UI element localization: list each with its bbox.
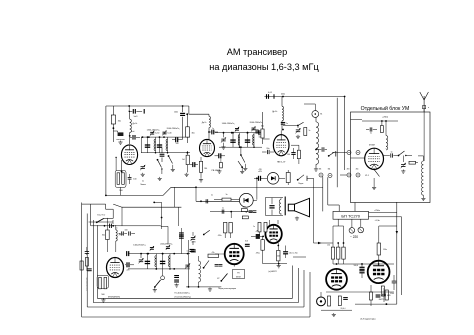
wire PSU box to R13 R14: [333, 219, 397, 243]
wire detector bus: [195, 186, 239, 202]
trimmer C42: [138, 254, 143, 264]
svg-text:30к: 30к: [118, 121, 121, 123]
svg-text:Др 8+: Др 8+: [272, 111, 278, 113]
tube V5 rectifier: [326, 269, 347, 290]
connector К4: [328, 174, 332, 178]
connector К1: [347, 151, 351, 155]
svg-text:20,0 х 25в: 20,0 х 25в: [289, 253, 297, 255]
trimmer C7a 6+30: [162, 131, 171, 136]
svg-text:1н: 1н: [391, 152, 393, 154]
svg-text:Отдельный блок УМ: Отдельный блок УМ: [361, 105, 410, 112]
label Х3 Х4: [347, 168, 359, 170]
wire bus A2: [153, 202, 162, 230]
choke Др2 Др 8+: [202, 116, 211, 139]
svg-text:АМ трансивер: АМ трансивер: [227, 47, 288, 57]
switch S12: [238, 161, 243, 170]
wire bus A: [105, 187, 196, 196]
connector К3: [319, 173, 323, 177]
output transformer Tr3: [265, 197, 285, 216]
label band1 VFO: [133, 244, 146, 246]
trimmer C20 PA: [401, 156, 406, 169]
svg-text:100: 100: [176, 143, 179, 145]
capacitor C26 20,0: [283, 246, 297, 259]
svg-text:1н: 1н: [286, 123, 288, 125]
wire cathode V1: [121, 160, 123, 173]
resistor R12 PA: [409, 161, 418, 164]
choke Др3: [272, 97, 283, 131]
svg-text:470к: 470к: [218, 235, 222, 237]
wire V3 grid: [263, 138, 270, 140]
ground gnd11: [401, 170, 405, 174]
label Отдельный блок УМ: [361, 105, 410, 112]
svg-text:Др 8+: Др 8+: [202, 122, 207, 124]
resistor R25: [80, 252, 83, 270]
capacitor C4 100 (cathode): [128, 174, 137, 184]
wire bus B: [82, 204, 182, 226]
label V2: [212, 170, 221, 172]
capacitor C23: [382, 288, 391, 302]
tube V3 ГУ: [273, 131, 289, 156]
label К3 К4: [319, 168, 331, 170]
PSU box БП ТС270: [333, 211, 369, 219]
label band1 Tr2: [222, 123, 236, 125]
label Пара регенерации: [218, 288, 237, 290]
resistor R31: [85, 258, 91, 272]
svg-text:+250в: +250в: [382, 117, 389, 119]
capacitor C44: [191, 250, 196, 252]
ground gnd2: [158, 177, 162, 181]
ground gnd10: [314, 168, 318, 172]
wire К-Х links: [332, 153, 347, 176]
svg-text:100: 100: [287, 154, 290, 156]
wire modulator links: [215, 254, 234, 267]
svg-text:1400-1900кГц: 1400-1900кГц: [133, 244, 146, 246]
neon lamp HL1: [304, 104, 322, 117]
capacitors C29 pair: [215, 265, 223, 267]
resistor R24 30к: [102, 218, 109, 252]
wire feeds into PSU top: [323, 177, 355, 212]
svg-text:6+30: 6+30: [168, 133, 172, 135]
svg-text:150к: 150к: [383, 249, 387, 251]
tank L11C31: [160, 253, 171, 270]
diode VD0 limiter: [267, 173, 285, 185]
wire modulator bottom bus: [186, 286, 221, 291]
mic coupling coil L9: [199, 256, 201, 287]
label БП ТС270: [341, 213, 360, 218]
wire limiter drop: [256, 177, 258, 199]
capacitor C13 0,01: [267, 92, 285, 99]
label bottom right: [360, 299, 384, 320]
ground gnd5: [171, 168, 175, 172]
resistors R29 R30 (V7 grid): [218, 212, 233, 238]
svg-text:1об: 1об: [131, 131, 134, 133]
svg-text:1к: 1к: [309, 130, 311, 132]
label band2 VFO: [160, 243, 173, 245]
wire bus 225: [91, 207, 161, 229]
wire bottom run 2: [0, 0, 1, 1]
resistor R32 1к: [304, 128, 311, 136]
switch S5 PA: [398, 151, 412, 156]
resistor R6 1к5: [182, 151, 189, 172]
wire bottom run 1: [355, 303, 397, 305]
tank L1C6: [145, 136, 157, 153]
capacitor C2 100п: [174, 106, 185, 140]
switch S1 (stage1): [157, 159, 163, 174]
svg-text:6Н2П: 6Н2П: [379, 299, 384, 301]
svg-text:560: 560: [101, 294, 104, 296]
resistor R17: [370, 285, 381, 306]
trimmer C45: [185, 263, 190, 268]
ground gnd1: [141, 173, 145, 177]
tank L10C30: [145, 253, 157, 270]
switch S14 КУ: [217, 274, 227, 282]
connector XS2 VFO: [161, 269, 165, 280]
resistor R7 240: [199, 157, 207, 178]
svg-text:2000-2940кГц: 2000-2940кГц: [160, 243, 173, 245]
switch S11 stage3: [283, 122, 304, 126]
svg-text:ПВ /1-Э/: ПВ /1-Э/: [277, 161, 286, 163]
switch S2 Tr1: [168, 155, 173, 168]
svg-text:1н: 1н: [211, 194, 213, 196]
svg-text:470: 470: [259, 169, 262, 171]
ground gnd7: [221, 146, 225, 150]
label 6,3в PSU: [374, 220, 380, 222]
ground gnd22: [240, 170, 244, 174]
ground gnd15: [277, 264, 281, 268]
wire V7 cathode bus: [263, 263, 287, 265]
trimmer C6a 6+30: [150, 131, 159, 136]
resistor R2 (grid, dark): [113, 131, 125, 144]
svg-text:2000-2940кГц: 2000-2940кГц: [250, 122, 264, 124]
resistor R19 470а: [256, 236, 265, 263]
wire bus C: [89, 220, 113, 224]
resistors R36 R37 pair: [253, 222, 267, 236]
tank coil L7: [316, 118, 319, 168]
label +250в PSU: [374, 210, 381, 212]
ground gnd12: [421, 197, 425, 201]
resistor R33: [286, 170, 290, 185]
svg-text:1н: 1н: [187, 251, 189, 253]
wire bottom long: [0, 0, 1, 1]
wire stage2 supply link: [183, 106, 209, 116]
resistor R1 30к: [111, 106, 121, 142]
wire V7 to psu: [293, 256, 306, 258]
choke Др5: [116, 225, 124, 252]
switch S3 Tr2: [240, 147, 245, 167]
svg-text:400в: 400в: [281, 94, 285, 96]
resistor R13: [331, 243, 334, 264]
ground gnd14: [332, 313, 336, 317]
fuse-plug circle 1: [349, 219, 355, 233]
wire +supply bus stage3: [264, 96, 345, 98]
capacitor C34: [125, 230, 136, 236]
wire PA supply: [362, 120, 398, 122]
svg-text:2000-2940кГц: 2000-2940кГц: [167, 128, 181, 130]
svg-text:100п: 100п: [174, 112, 178, 114]
fuse-plug circle 2: [358, 219, 364, 233]
svg-text:30к: 30к: [261, 126, 264, 128]
label V9: [108, 297, 120, 299]
label band1 Tr1: [147, 129, 161, 131]
antenna W1: [420, 92, 430, 161]
wire speaker to psu: [313, 178, 315, 243]
trimmer C30a: [150, 246, 154, 251]
label band2 Tr1: [167, 128, 181, 130]
capacitor C7b 100: [172, 137, 182, 145]
switch S13: [297, 175, 314, 185]
label ГU1 line2: [175, 297, 192, 299]
svg-text:1400-1900кГц: 1400-1900кГц: [222, 123, 236, 125]
svg-text:1н: 1н: [222, 208, 224, 210]
resistor R16: [328, 296, 348, 310]
nested box 2: [87, 214, 304, 308]
wire Tr1 bottom bus: [141, 152, 190, 154]
svg-text:1к: 1к: [226, 194, 228, 196]
svg-text:1н: 1н: [212, 128, 214, 130]
svg-text:высокоом: высокоом: [116, 139, 125, 141]
wire VFO right risers: [181, 228, 188, 287]
capacitor C21 100,0: [354, 263, 365, 278]
label 4к7В: [192, 241, 197, 243]
nested box 1: [82, 203, 310, 318]
resistor R20: [0, 0, 1, 1]
ground gnd6: [185, 170, 222, 183]
label box V8: [233, 270, 245, 279]
tube V8 6Ф1П: [225, 244, 244, 264]
labels V1 values: [140, 180, 147, 186]
svg-text:1н: 1н: [116, 228, 118, 230]
capacitor C18 PA: [366, 127, 377, 134]
tank L4C11: [230, 132, 240, 148]
trimmer C16: [295, 126, 300, 134]
choke Др1 Др 8+: [129, 111, 139, 144]
ground gnd13: [372, 186, 376, 190]
trimmer C12a: [251, 127, 255, 132]
capacitor C39 470: [254, 169, 267, 181]
capacitor C41 22н: [125, 262, 134, 271]
wire hv to audio psu: [314, 242, 345, 244]
switch S10: [203, 230, 210, 235]
nested box 3: [93, 220, 298, 303]
capacitor C35: [85, 247, 89, 255]
svg-text:на диапазоны 1,6-3,3 мГц: на диапазоны 1,6-3,3 мГц: [209, 62, 319, 72]
svg-text:0,05: 0,05: [387, 295, 391, 297]
choke Др4 PA: [386, 121, 388, 150]
tube V2 6К4П: [200, 139, 215, 156]
tube V1 6К4П: [121, 145, 137, 165]
resistor R18 1к: [214, 194, 231, 201]
label +250в PA: [382, 117, 389, 119]
resistor R34 4к7: [241, 206, 247, 211]
svg-text:1об1: 1об1: [133, 116, 137, 118]
diode VD1 detector: [231, 193, 257, 207]
nested box 4: [97, 225, 292, 298]
svg-text:6Ф1П: 6Ф1П: [236, 275, 241, 278]
wire V7 plate: [270, 220, 279, 225]
tube V7 6П14П audio out: [265, 225, 281, 243]
svg-text:200: 200: [277, 256, 280, 258]
wire PSU +250 out: [369, 212, 397, 214]
ground gnd20: [0, 0, 1, 1]
svg-text:100,0: 100,0: [354, 265, 359, 267]
svg-text:1к: 1к: [142, 180, 144, 182]
resistor R22 47к: [208, 252, 219, 258]
switch S8 VFO: [153, 280, 161, 292]
svg-text:К1.2 Тлг: К1.2 Тлг: [97, 215, 105, 217]
tank L2C7: [157, 136, 169, 153]
switch S9 (bold): [0, 0, 1, 1]
resistor R14b: [342, 243, 345, 264]
wire Tr2 top bus: [215, 132, 262, 134]
label ГU1 line1: [175, 293, 191, 295]
wire VFO top bus: [128, 253, 190, 255]
wire PSU 6,3 out: [369, 216, 402, 218]
svg-text:100: 100: [133, 179, 136, 181]
ground gnd9: [243, 167, 247, 171]
svg-text:470а: 470а: [256, 252, 260, 254]
capacitor C25b: [249, 211, 257, 213]
svg-text:1к: 1к: [253, 226, 255, 228]
capacitor C25 1н: [222, 208, 224, 214]
wire plate junction: [160, 148, 165, 162]
svg-text:К1.1: К1.1: [365, 175, 369, 177]
capacitor C40 (bus left): [127, 251, 129, 256]
capacitor C8 1н: [208, 128, 218, 135]
capacitor C19 1н PA: [384, 152, 398, 158]
label ~220: [350, 235, 358, 239]
PA unit box: [351, 112, 431, 203]
wire mid vertical 1: [0, 0, 1, 1]
wire audio psu top: [333, 263, 394, 265]
wire +supply bus stage1-2: [106, 105, 189, 107]
tube V6 rectifier: [368, 261, 390, 283]
capacitor C46: [174, 276, 179, 288]
label V7: [268, 271, 277, 273]
resistors R3 R4 560 (cathode pair): [115, 157, 126, 193]
capacitor C14 20н: [262, 148, 274, 154]
wire left edge of RF section: [105, 106, 107, 195]
svg-text:Др 8Г: Др 8Г: [119, 234, 124, 236]
capacitor C24 1н: [206, 194, 213, 203]
resistor R14: [327, 243, 340, 264]
wire right riser 1: [396, 202, 398, 304]
capacitor C29b 3н3: [245, 240, 250, 246]
wire bus3 left drop: [0, 0, 1, 1]
svg-text:100: 100: [125, 230, 128, 232]
tank coil L8 PA: [418, 156, 423, 197]
trimmer C31a: [166, 245, 170, 250]
trimmer C10 Tr2 (variable): [221, 133, 226, 146]
svg-text:6П15П: 6П15П: [369, 145, 376, 147]
svg-text:~ 220: ~ 220: [350, 235, 358, 239]
svg-text:~6,3в: ~6,3в: [374, 220, 380, 222]
svg-text:240: 240: [204, 168, 207, 170]
label оРЧ: [258, 171, 262, 173]
resistor R5 30к: [186, 114, 195, 143]
svg-text:+250в: +250в: [374, 210, 381, 212]
label V3: [277, 161, 286, 163]
capacitor C15 1н: [281, 122, 288, 130]
wire bus to PA connectors: [337, 97, 344, 188]
capacitor C17 100: [287, 148, 296, 159]
capacitor C3 (grid): [130, 135, 140, 140]
svg-text:Лампа: Лампа: [140, 184, 147, 186]
resistor R15: [377, 238, 387, 261]
svg-text:6+30: 6+30: [155, 133, 159, 135]
trimmer C27: [190, 232, 195, 245]
svg-text:Л1: Л1: [320, 114, 322, 116]
switch S4 tank: [328, 151, 336, 157]
capacitor C28 1н: [187, 250, 195, 253]
capacitor C33: [119, 231, 128, 235]
trimmer C5: [140, 165, 145, 170]
svg-text:220б: 220б: [390, 293, 394, 295]
capacitor C1 1000: [129, 106, 145, 118]
svg-text:1к5: 1к5: [182, 159, 185, 161]
resistors R26 R27 (cathode V9): [97, 275, 108, 296]
svg-text:3н3: 3н3: [245, 240, 248, 242]
resistor R10: [291, 145, 300, 164]
capacitor C16b: [315, 147, 327, 151]
wire Tr2 bottom bus: [219, 146, 262, 148]
svg-text:20к: 20к: [327, 245, 330, 247]
capacitor C9 (V2 out): [215, 153, 226, 168]
wire PA left feeds: [351, 119, 365, 158]
label band2 Tr2: [250, 122, 264, 124]
ground gnd21: [296, 135, 300, 139]
resistor R9 30к: [256, 112, 264, 144]
speaker BA1: [288, 198, 309, 217]
connector Х1: [356, 151, 360, 155]
capacitor C12b 100: [259, 130, 262, 139]
wire Tr1 top bus: [141, 136, 190, 152]
svg-text:Пара регенерации: Пара регенерации: [218, 288, 237, 290]
svg-text:47к: 47к: [212, 252, 215, 254]
wire detector row2: [210, 211, 253, 213]
connector XS1: [317, 292, 326, 306]
svg-text:(Ь,П видеотермы: (Ь,П видеотермы: [360, 318, 376, 320]
label V4: [369, 145, 376, 147]
wire right riser 2: [401, 217, 403, 295]
component dark (V7 grid stopper): [251, 231, 264, 239]
tank L5C11b: [245, 132, 255, 148]
capacitor C9b (bold): [190, 162, 198, 167]
tube V9 6Н1П: [107, 258, 124, 278]
wire audio psu bottom: [321, 292, 394, 310]
wire VFO top corner: [161, 226, 168, 244]
trimmer C11a: [235, 127, 239, 132]
svg-text:4к7: 4к7: [243, 206, 246, 208]
svg-text:30к: 30к: [102, 235, 105, 237]
capacitor C22: [381, 275, 396, 305]
svg-text:ГU-1100-1500кГц: ГU-1100-1500кГц: [175, 293, 191, 295]
vertical label: [87, 277, 89, 291]
ground gnd19: [101, 299, 105, 303]
resistor R21 200: [277, 243, 280, 263]
tube V4 PA: [365, 148, 384, 169]
svg-text:20,0 б: 20,0 б: [340, 308, 345, 310]
title line 2: [209, 62, 319, 72]
svg-text:30к: 30к: [192, 133, 195, 135]
svg-text:1н: 1н: [370, 133, 372, 135]
wire top to PA crossing: [174, 187, 322, 207]
svg-text:22н: 22н: [127, 269, 130, 271]
switch S7: [203, 261, 209, 269]
title line 1: [227, 47, 288, 57]
resistor R35: [242, 216, 248, 219]
svg-text:Пауза: Пауза: [298, 183, 303, 185]
svg-text:20н: 20н: [266, 148, 269, 150]
